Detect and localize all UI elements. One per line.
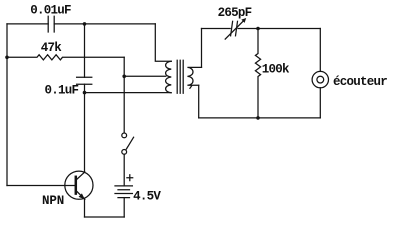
battery plus sign [127,175,133,181]
wire emitter vertical [84,199,86,217]
variable capacitor arrowhead [241,18,246,23]
transistor Q1 emitter arrowhead [79,193,85,199]
transistor Q1 emitter line [77,192,85,200]
earphone ecouteur inner circle [317,76,324,83]
battery B1 plates [115,186,132,198]
switch S1 blade [126,137,133,149]
resistor R2 100k [255,29,260,118]
transistor Q1 base bar [75,177,78,194]
wire switch to battery [123,154,125,186]
wire tap to transformer [124,75,166,77]
svg-text:NPN: NPN [42,194,64,208]
node dot C2 bottom junction [83,91,87,95]
svg-text:100k: 100k [262,62,290,76]
capacitor C2 0.1uF plates [77,77,92,84]
switch S1 bottom contact [122,150,127,155]
svg-text:0.1uF: 0.1uF [45,83,79,97]
switch S1 top contact [122,133,127,138]
wire battery bottom stub [123,198,125,217]
wire top right horizontal right segment [238,28,320,30]
wire base lead [7,185,75,187]
transistor Q1 circle [65,171,93,199]
svg-text:265pF: 265pF [218,6,252,20]
variable capacitor CV 265pF plates [231,21,238,36]
node dot tap junction [122,75,126,79]
variable capacitor arrow [225,20,244,39]
svg-text:écouteur: écouteur [333,75,387,89]
transformer T1 core [177,60,183,93]
resistor R1 47k [7,55,124,60]
svg-text:47k: 47k [41,41,63,55]
wire vertical down to transformer primary top [155,24,171,61]
earphone ecouteur outer circle [312,71,328,87]
node dot left rail / 47k [5,56,9,60]
wire left rail [6,24,8,186]
wire C2 bottom to collector [84,84,86,172]
wire bottom horizontal [85,216,125,218]
wire top horizontal right segment [54,23,155,25]
transformer T1 primary winding [166,61,172,92]
transistor Q1 collector line [77,172,85,179]
wire coil bottom horizontal [85,92,171,94]
wire bottom right horizontal [199,117,321,119]
node dot top wire / C2 [83,22,87,26]
node dot 100k bottom [256,116,260,120]
svg-text:0.01uF: 0.01uF [30,3,71,17]
wire top-left horizontal left segment [7,23,48,25]
wire ecouteur top vertical [319,29,321,72]
wire ecouteur bottom vertical [319,88,321,118]
wire top right horizontal left segment [202,28,231,30]
wire secondary top vertical [201,29,203,68]
transformer T1 secondary winding [187,67,201,88]
capacitor C1 0.01uF plates [48,16,54,32]
wire secondary bottom vertical [198,85,200,118]
wire vertical from top wire to C2 [84,24,86,77]
wire vertical to switch [123,57,125,133]
svg-text:4.5V: 4.5V [133,189,161,203]
node dot 100k top [256,27,260,31]
